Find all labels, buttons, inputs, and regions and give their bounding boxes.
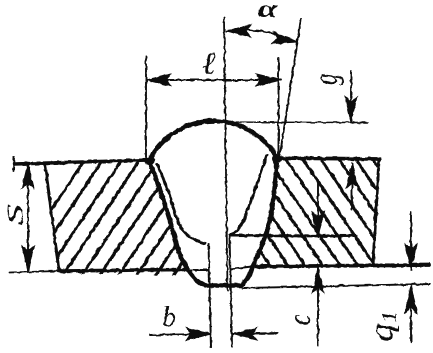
S dimension line [27, 163, 29, 271]
left plate hatching [6, 158, 252, 278]
right groove face (inner line) [230, 155, 267, 236]
l extension line right [278, 58, 280, 158]
q1 dimension line upper [410, 212, 412, 270]
svg-text:g: g [308, 74, 345, 85]
right plate hatching [175, 152, 433, 270]
g dimension line lower [351, 163, 353, 210]
svg-text:b: b [162, 301, 177, 333]
right plate right edge [373, 159, 379, 265]
svg-text:q1: q1 [363, 311, 402, 342]
S arrow up [22, 163, 34, 188]
bottom extension line left (for S) [9, 271, 59, 273]
g arrow down [345, 97, 357, 122]
ink knot at left cap corner [145, 157, 155, 165]
g dimension line upper [350, 71, 352, 122]
alpha dimension arc [226, 30, 297, 42]
svg-text:c: c [283, 314, 318, 325]
left plate top surface line [14, 160, 150, 164]
alpha arrow left [226, 25, 251, 37]
g arrow up [346, 163, 358, 188]
right plate bottom edge [252, 265, 429, 267]
alpha arrow right [272, 32, 298, 44]
l extension line left [145, 56, 147, 158]
centerline [224, 18, 228, 290]
plate bottom line visible through root area [186, 267, 252, 271]
c top reference line [230, 234, 356, 238]
b arrow right-pointing [186, 328, 211, 340]
alpha slant line (groove face tangent) [279, 19, 301, 161]
c dimension line upper [317, 183, 319, 237]
q1 arrow up [405, 286, 417, 314]
l arrow right [256, 74, 281, 86]
c arrow down [312, 212, 324, 237]
l arrow left [146, 74, 171, 86]
g top reference line (from cap apex) [205, 121, 367, 124]
weld bead outer outline (cap, fusion lines, root bead) [149, 121, 277, 285]
b arrow left-pointing [232, 328, 257, 340]
l dimension line [146, 79, 281, 81]
q1 arrow down [405, 244, 417, 270]
svg-text:S: S [3, 204, 28, 225]
S arrow down [22, 246, 34, 271]
b dimension line right [232, 333, 278, 334]
ink knot at right cap corner [272, 155, 282, 163]
q1 bottom reference line (root bead underside) [243, 284, 430, 288]
left root face edge + b extension line [209, 244, 212, 348]
end tick on top surface line [13, 157, 16, 171]
left groove face (inner line) [157, 164, 205, 244]
c dimension line lower [317, 268, 319, 346]
q1 dimension line lower [410, 288, 412, 342]
b dimension line left [150, 334, 211, 335]
left plate bottom edge [59, 270, 188, 272]
left plate left edge [45, 164, 59, 271]
c arrow up [312, 268, 324, 293]
svg-text:ℓ: ℓ [202, 45, 216, 81]
right root face edge + b extension line [230, 236, 233, 348]
right plate top surface line [277, 158, 379, 159]
svg-text:α: α [258, 0, 279, 23]
